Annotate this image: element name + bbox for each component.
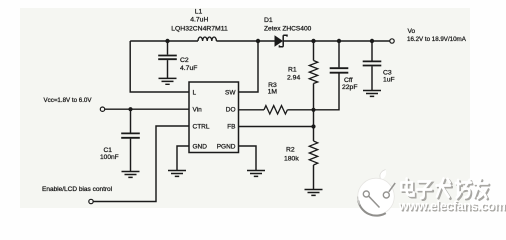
wire D1 cathode to Vo terminal — [283, 40, 389, 42]
capacitor C1 plates — [121, 133, 140, 137]
junction node Vin at C1 — [128, 107, 132, 111]
svg-text:4.7uF: 4.7uF — [180, 65, 197, 72]
svg-text:D1: D1 — [264, 17, 273, 24]
svg-text:180k: 180k — [284, 156, 299, 163]
capacitor Cff top lead — [338, 41, 340, 67]
capacitor C2 top lead — [167, 41, 169, 55]
svg-text:LQH32CN4R7M11: LQH32CN4R7M11 — [171, 26, 228, 33]
svg-text:16.2V to 18.9V/10mA: 16.2V to 18.9V/10mA — [407, 36, 467, 43]
svg-text:1M: 1M — [268, 89, 278, 96]
svg-text:Zetex ZHCS400: Zetex ZHCS400 — [264, 26, 312, 33]
ground below R2 — [305, 190, 323, 196]
svg-text:FB: FB — [227, 124, 235, 131]
diode D1 schottky — [275, 35, 288, 46]
svg-text:Enable/LCD bias control: Enable/LCD bias control — [42, 186, 113, 193]
resistor R3 — [264, 106, 287, 114]
svg-text:GND: GND — [193, 144, 208, 151]
ground below C3 — [363, 91, 381, 97]
inductor L1 — [198, 37, 216, 41]
svg-text:C1: C1 — [104, 147, 113, 154]
watermark CJK text 电子发烧友 — [401, 179, 487, 199]
wire SW pin up to rail — [239, 41, 259, 92]
wire R3 to node A — [287, 109, 313, 111]
junction node on rail at C3 — [370, 39, 374, 43]
wire rail to R1 — [313, 41, 315, 61]
ground below PGND pin — [247, 171, 265, 177]
ground below C1 — [122, 172, 140, 178]
wire left branch from rail down to L pin — [130, 41, 189, 92]
junction node on rail at C2 — [165, 39, 169, 43]
wire L1-to-D1 anode — [216, 40, 274, 42]
wire GND pin down — [177, 146, 189, 171]
terminal Vo output — [390, 39, 394, 43]
capacitor C3 plates — [363, 61, 382, 65]
svg-text:R2: R2 — [286, 147, 295, 154]
scan area background — [20, 8, 470, 208]
wire top rail Vcc-to-L1 — [130, 40, 198, 42]
svg-text:L1: L1 — [195, 8, 203, 15]
capacitor C1 bottom lead — [130, 139, 132, 172]
wire DO pin to R3 — [239, 109, 265, 111]
wire node B down to R2 — [313, 127, 315, 142]
svg-text:CTRL: CTRL — [193, 124, 210, 131]
junction node on rail at Cff — [337, 39, 341, 43]
wire Vcc input to Vin pin — [105, 108, 189, 110]
svg-text:PGND: PGND — [217, 144, 236, 151]
svg-text:2.94: 2.94 — [287, 74, 300, 81]
junction node on rail at R1 — [311, 39, 315, 43]
junction node A R1-R3-Cff — [311, 108, 315, 112]
junction node on rail at SW — [256, 39, 260, 43]
junction node B FB divider — [311, 124, 315, 128]
svg-text:100nF: 100nF — [100, 154, 119, 161]
svg-text:Vcc=1.8V to 6.0V: Vcc=1.8V to 6.0V — [44, 97, 93, 104]
svg-text:4.7uH: 4.7uH — [190, 17, 208, 24]
capacitor C3 bottom lead — [371, 66, 373, 90]
wire PGND pin down — [239, 146, 257, 171]
svg-text:L: L — [193, 90, 197, 97]
svg-text:DO: DO — [226, 107, 236, 114]
wire FB pin to node B — [239, 126, 314, 128]
capacitor C1 top lead — [130, 109, 132, 133]
capacitor C3 top lead — [371, 41, 373, 61]
terminal Enable input — [89, 199, 93, 203]
watermark logo disc — [358, 170, 396, 216]
svg-text:C2: C2 — [180, 57, 189, 64]
ground below C2 — [159, 78, 177, 84]
ground below GND pin — [168, 171, 186, 177]
terminal Vcc input — [100, 107, 104, 111]
resistor R1 — [309, 61, 317, 84]
IC U1 body — [189, 82, 239, 153]
svg-text:Vo: Vo — [408, 28, 416, 35]
capacitor Cff bottom lead to node A — [314, 74, 340, 110]
svg-text:1uF: 1uF — [383, 76, 395, 83]
svg-text:Vin: Vin — [193, 107, 203, 114]
wire R1 to node A to node B — [313, 84, 315, 127]
capacitor Cff plates — [330, 68, 349, 73]
capacitor C2 bottom lead — [167, 60, 169, 78]
svg-text:SW: SW — [225, 90, 236, 97]
watermark CJK shadow — [403, 180, 489, 200]
svg-text:22pF: 22pF — [342, 84, 358, 91]
resistor R2 — [309, 141, 317, 165]
capacitor C2 plates — [158, 56, 177, 60]
wire R2 to ground — [313, 165, 315, 190]
wire CTRL pin to enable terminal — [93, 126, 189, 202]
svg-text:Cff: Cff — [344, 77, 353, 84]
svg-text:www.elecfans.com: www.elecfans.com — [398, 199, 506, 213]
svg-text:R1: R1 — [288, 66, 297, 73]
